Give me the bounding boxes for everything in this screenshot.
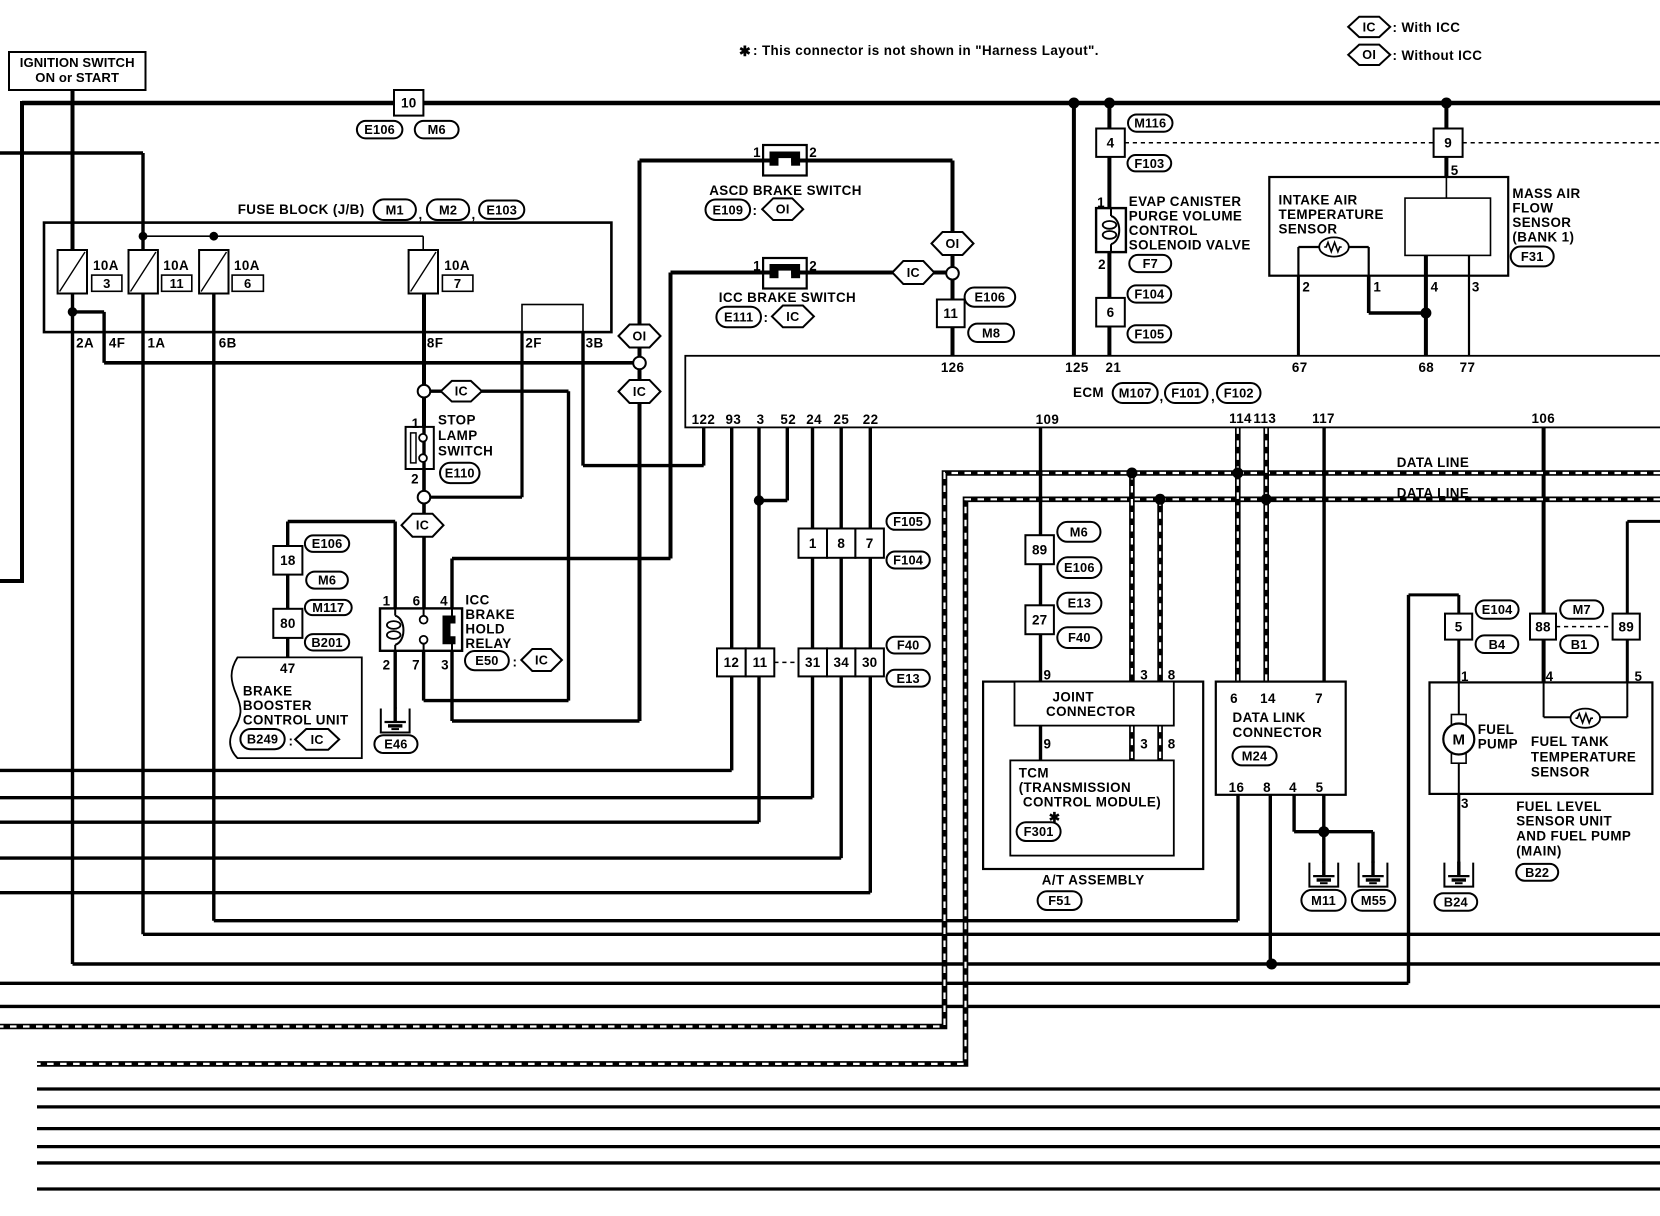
svg-text:1: 1 [1373, 280, 1381, 295]
junction dot bus/ECM125 [1068, 98, 1079, 109]
svg-text:114: 114 [1229, 411, 1252, 426]
svg-text:M55: M55 [1361, 893, 1387, 908]
svg-text:4: 4 [1546, 669, 1554, 684]
svg-text:LAMP: LAMP [438, 428, 478, 443]
svg-text:80: 80 [280, 616, 295, 631]
connector trio 31/34/30 [799, 648, 828, 676]
connector label F51 [1038, 891, 1082, 910]
svg-text:8: 8 [837, 536, 845, 551]
svg-text:F104: F104 [1134, 287, 1165, 302]
svg-text:SENSOR: SENSOR [1531, 765, 1590, 780]
connector label F104 [1128, 285, 1172, 302]
hexagon IC on stop-lamp bypass line [441, 381, 482, 402]
svg-text::: : [289, 734, 294, 749]
wire MAF pin 3 to ECM pin 77 [1468, 255, 1470, 355]
connector label M8 [968, 324, 1014, 342]
svg-text:IC: IC [416, 519, 429, 533]
connector label F301 [1017, 822, 1061, 841]
wire ECM pin 3 to left edge with branch from pin 52 [757, 427, 760, 822]
connector label M6 [306, 572, 348, 589]
connector label B201 [305, 634, 349, 650]
svg-text:BRAKE: BRAKE [243, 684, 293, 699]
svg-text:27: 27 [1032, 612, 1047, 627]
wire MAF pin 4 to ECM pin 68 [1424, 255, 1428, 355]
wire bypass: stop-lamp pin1 circle right through IC hex to riser x=568.5 [428, 390, 569, 393]
wire 4F to junction circle near 3B (y=362.8) [104, 361, 634, 365]
wire left bus drop: x=22 down to y=581 and out left edge [20, 101, 24, 581]
wire 4F terminal drop [102, 312, 105, 363]
svg-text:11: 11 [170, 276, 184, 291]
connector label E13 [887, 670, 930, 687]
svg-text::: : [513, 655, 518, 670]
connector 10 (E106/M6) on bus [394, 90, 423, 116]
wire ignition feed: IGNITION SWITCH down to fuse 3 [71, 90, 75, 251]
svg-text:F51: F51 [1048, 893, 1071, 908]
svg-text:89: 89 [1618, 619, 1633, 634]
svg-text:E106: E106 [364, 122, 395, 137]
connector label E106 [965, 288, 1016, 307]
svg-text:7: 7 [412, 658, 420, 673]
svg-text:68: 68 [1418, 360, 1434, 375]
svg-text:(BANK 1): (BANK 1) [1512, 230, 1574, 245]
svg-text:E106: E106 [975, 290, 1006, 305]
wire fuel sensor pin 4 internal lead [1543, 682, 1545, 717]
svg-text:77: 77 [1460, 360, 1476, 375]
hexagon OI on 4F column [619, 325, 661, 348]
svg-text:F31: F31 [1521, 249, 1544, 264]
svg-text:A/T ASSEMBLY: A/T ASSEMBLY [1042, 873, 1145, 888]
svg-text:M11: M11 [1311, 893, 1336, 908]
svg-text:M6: M6 [428, 122, 446, 137]
connector label B22 [1516, 864, 1558, 881]
ECM box [685, 356, 1660, 428]
wire hex column x=639.5 from ASCD pin1 through OI/IC hexes down to relay pin 3 run [638, 161, 642, 722]
connector label F105 [887, 513, 930, 530]
wire ICC switch pin 1 horizontal [671, 271, 765, 275]
svg-text:113: 113 [1253, 411, 1276, 426]
svg-text:F301: F301 [1024, 824, 1054, 839]
wire DATA LINK CONNECTOR pin 8 to y=964 bus [1269, 795, 1272, 964]
svg-text:STOP: STOP [438, 413, 476, 428]
wire connector chain 18/80 down to BRAKE BOOSTER CONTROL UNIT pin 47 [286, 522, 289, 658]
fuse block 2F/3B notch [522, 305, 583, 333]
svg-text:3: 3 [757, 412, 765, 427]
junction dot DATA LINE 1 / JOINT pin 3 [1126, 468, 1137, 479]
wire IAT sensor left lead to pin 2 / ECM pin 67 [1298, 246, 1320, 248]
svg-text:B24: B24 [1444, 895, 1469, 910]
svg-text:3: 3 [1461, 796, 1469, 811]
wire column x=952.5 through OI hex and circle to connector 11 and ECM pin 126 [951, 161, 955, 356]
connector label E106 [305, 535, 349, 552]
svg-text:52: 52 [780, 412, 796, 427]
svg-text:30: 30 [862, 655, 877, 670]
wire DATA LINK CONNECTOR pin 5 to ground M11 [1322, 795, 1325, 863]
svg-text:M8: M8 [982, 325, 1000, 340]
svg-text:47: 47 [280, 661, 296, 676]
connector label M11 [1301, 890, 1345, 911]
junction dot fuse block bus at 1A [139, 232, 148, 241]
svg-text:2: 2 [411, 472, 419, 487]
svg-text:IC: IC [535, 653, 548, 667]
svg-text:5: 5 [1451, 163, 1459, 178]
svg-text:AND FUEL PUMP: AND FUEL PUMP [1516, 829, 1631, 844]
wire fuse-block internal bus y=236 feeding fuses 6 and 7 [143, 235, 423, 237]
svg-text:1A: 1A [148, 336, 166, 351]
connector label F102 [1217, 383, 1261, 403]
wire relay coil pin 1 riser and link to connector 18/80 chain [394, 522, 397, 609]
svg-text:,: , [1160, 389, 1164, 404]
svg-text:E104: E104 [1482, 602, 1513, 617]
node circle ASCD pin2 / ICC pin2 join [946, 267, 959, 280]
connector label M116 [1128, 115, 1173, 132]
wire connector 5 to fuel pump pin 1 [1457, 640, 1460, 683]
connector 80 (M117/B201) [273, 609, 302, 638]
svg-text:7: 7 [454, 276, 461, 291]
svg-text:9: 9 [1044, 668, 1052, 683]
svg-text:10A: 10A [234, 258, 260, 273]
mass air flow sensor outer box (with IAT sensor) [1269, 177, 1508, 276]
svg-text:F105: F105 [893, 514, 923, 529]
junction dot bus/EVAP [1104, 98, 1115, 109]
connector 5 (E104/B4) on fuel pump feed [1445, 614, 1472, 640]
wire ASCD switch pin 2 to x=952.5 column [807, 159, 953, 163]
stop lamp switch E110 [406, 427, 434, 469]
svg-text:M1: M1 [386, 202, 404, 217]
svg-text::: : [753, 203, 758, 218]
svg-text:PUMP: PUMP [1478, 737, 1518, 752]
svg-text:ECM: ECM [1073, 385, 1104, 400]
connector label F7 [1129, 255, 1171, 272]
wire riser to DATA LINK CONNECTOR pin 16 [1236, 795, 1239, 921]
connector label B4 [1476, 635, 1519, 653]
A/T assembly outer box [983, 682, 1203, 869]
connector pair 12/11 on ECM 93 and 3 wires [717, 648, 746, 676]
wire 3B terminal drop to y=465.6 (ECM pin 122 link) [581, 332, 584, 466]
wire ICC switch pin 1 riser x=670.5 [669, 273, 673, 559]
fuse 10A #3 [58, 250, 87, 294]
svg-text:8: 8 [1168, 737, 1176, 752]
legend hexagon OI = Without ICC [1348, 45, 1390, 65]
wire DATA LINE 1 (striped): ECM area right edge, down x=944.5, left to edge at y=1026.5 [0, 473, 1660, 1027]
connector label E50 [465, 651, 509, 670]
connector 27 (E13/F40) [1025, 605, 1054, 634]
dashed link connector 88 to 89 [1556, 626, 1613, 628]
connector label E13 [1057, 593, 1101, 614]
svg-text:HOLD: HOLD [465, 622, 505, 637]
connector 9 on MAF feed [1434, 129, 1463, 157]
data link connector M24 box [1216, 682, 1346, 795]
svg-text:RELAY: RELAY [465, 636, 511, 651]
svg-text:ON or START: ON or START [35, 70, 119, 85]
fuse 10A #7 [409, 250, 438, 294]
connector label M7 [1560, 600, 1603, 618]
svg-text:4F: 4F [109, 336, 125, 351]
wire MAF chain from main bus through connector 9 [1444, 103, 1448, 177]
connector label F104 [887, 552, 930, 569]
svg-text:CONTROL: CONTROL [1129, 223, 1198, 238]
svg-text:ICC: ICC [465, 593, 489, 608]
connector label F101 [1165, 383, 1208, 403]
wire fuse 3 output with branch to 4F [71, 294, 74, 312]
connector label F103 [1128, 155, 1172, 171]
wire fuel pump feed: bus y=983.3 up riser x=1408.5 to connector 5 [0, 982, 1409, 985]
connector label M107 [1113, 383, 1158, 403]
fuse 10A #6 [199, 250, 228, 294]
wire ECM pin 125 from main bus [1072, 103, 1076, 356]
svg-text:F104: F104 [893, 553, 924, 568]
EVAP chain: connector 4 (M116/F103) [1096, 129, 1125, 157]
svg-text:E13: E13 [1068, 596, 1091, 611]
wire ECM pin 22 to left edge [869, 427, 872, 892]
svg-text:DATA LINK: DATA LINK [1233, 710, 1306, 725]
wire relay pin 3 run y=721 [452, 719, 640, 722]
svg-text:E106: E106 [1064, 560, 1095, 575]
svg-text:5: 5 [1635, 669, 1643, 684]
hexagon IC on 4F column [619, 380, 661, 403]
svg-text:BOOSTER: BOOSTER [243, 698, 312, 713]
wire ECM pin 109 to JOINT CONNECTOR pin 9 via connectors 89/27 [1039, 427, 1042, 682]
svg-text:: This connector is not shown: : This connector is not shown in "Harnes… [753, 43, 1099, 58]
wire JOINT CONNECTOR pin 3 (striped) to DATA LINE 1 [1129, 473, 1135, 682]
wire EVAP chain from main bus to ECM pin 21 [1107, 103, 1111, 356]
ICC brake switch E111 [763, 258, 807, 289]
connector label B1 [1560, 635, 1598, 653]
ground B24 [1444, 863, 1473, 887]
connector 11 (E106/M8) [937, 300, 965, 328]
wire continuation lines bottom of sheet [37, 1087, 1660, 1090]
svg-text:9: 9 [1444, 135, 1452, 150]
svg-text:F7: F7 [1143, 256, 1158, 271]
svg-text:3: 3 [1140, 737, 1148, 752]
svg-text:126: 126 [941, 360, 965, 375]
svg-text:M116: M116 [1134, 116, 1166, 131]
svg-text:SOLENOID VALVE: SOLENOID VALVE [1129, 238, 1251, 253]
svg-text:6: 6 [413, 594, 421, 609]
wire fuel sensor pin 5 internal lead [1600, 716, 1628, 718]
wire 8F terminal: fuse 7 output down to stop lamp switch [422, 294, 426, 431]
ignition switch block [9, 52, 146, 90]
svg-text:1: 1 [412, 416, 420, 431]
wire ECM pin 25 to left edge [840, 427, 843, 858]
dashed link 11 to 31 [774, 661, 798, 663]
svg-text:18: 18 [280, 553, 296, 568]
wire MAF pin 5 internal lead [1445, 177, 1447, 198]
brake booster control unit B249 [230, 657, 362, 758]
hexagon OI for ASCD switch [762, 198, 803, 220]
connector label B249 [240, 729, 284, 749]
svg-text:CONTROL UNIT: CONTROL UNIT [243, 713, 349, 728]
svg-text:F102: F102 [1224, 386, 1254, 401]
svg-text:TEMPERATURE: TEMPERATURE [1279, 207, 1384, 222]
hexagon IC for relay [521, 649, 562, 671]
junction dot bus/MAF [1441, 98, 1452, 109]
svg-text:5: 5 [1316, 780, 1324, 795]
svg-text:2: 2 [1098, 257, 1106, 272]
svg-text:10A: 10A [93, 258, 119, 273]
svg-text:B22: B22 [1525, 865, 1549, 880]
svg-text:IC: IC [1363, 20, 1376, 34]
svg-text:ICC BRAKE SWITCH: ICC BRAKE SWITCH [719, 290, 856, 305]
svg-text:6: 6 [1230, 691, 1238, 706]
svg-text:11: 11 [753, 655, 768, 670]
fuse 10A #11 [129, 250, 158, 294]
svg-text:F40: F40 [1068, 630, 1091, 645]
wire fuel pump pin 3 to ground B24 [1457, 794, 1460, 863]
wire 1A terminal: fuse 11 output down to y=934 bus [141, 294, 144, 935]
wire ECM pin 106 to connector 88 and fuel tank temperature sensor pin 4 [1542, 427, 1546, 613]
svg-text:9: 9 [1044, 737, 1052, 752]
svg-text:34: 34 [833, 655, 849, 670]
svg-text:M2: M2 [439, 202, 457, 217]
wire stop lamp switch pin 2 node down to ICC hex and relay pin 6 [422, 466, 426, 611]
svg-text:1: 1 [753, 259, 761, 274]
svg-text:8F: 8F [427, 336, 443, 351]
wire relay pin 7 run y=700.6 [424, 699, 569, 702]
svg-text:8: 8 [1168, 668, 1176, 683]
svg-text:SENSOR UNIT: SENSOR UNIT [1516, 814, 1612, 829]
wire relay pin 4 to ICC switch pin 1 riser, y=558.5 [452, 557, 671, 560]
svg-text:14: 14 [1260, 691, 1276, 706]
svg-text:TCM: TCM [1019, 766, 1049, 781]
svg-text:PURGE VOLUME: PURGE VOLUME [1129, 209, 1242, 224]
wire ICC switch pin 2 through IC hex to circle [807, 271, 949, 275]
svg-text:TEMPERATURE: TEMPERATURE [1531, 750, 1636, 765]
wire ECM pin 52 joining pin 3 [786, 427, 789, 500]
connector label E46 [374, 735, 417, 753]
connector 89 (fuel sensor side) [1613, 614, 1640, 640]
hexagon IC below stop lamp switch [402, 514, 444, 537]
connector label B24 [1435, 893, 1478, 911]
connector 6 (F104/F105) [1096, 298, 1125, 327]
svg-text:B201: B201 [311, 635, 342, 650]
connector label M1 [374, 199, 416, 220]
hexagon IC for ICC switch [772, 306, 814, 328]
wire y=920.7 from 6B to DATA LINK pin 16 riser [214, 919, 1238, 922]
svg-text:SWITCH: SWITCH [438, 444, 493, 459]
svg-text:FUEL TANK: FUEL TANK [1531, 734, 1609, 749]
svg-text:DATA LINE: DATA LINE [1397, 455, 1470, 470]
connector label E103 [479, 201, 524, 219]
legend hexagon IC = With ICC [1348, 17, 1390, 37]
connector 89 on ECM 109 wire (M6/E106) [1025, 535, 1054, 564]
junction dot DATA LINE 2 / ECM 113 [1261, 494, 1272, 505]
svg-text:INTAKE AIR: INTAKE AIR [1279, 193, 1358, 208]
svg-text:SENSOR: SENSOR [1512, 215, 1571, 230]
ASCD brake switch E109 [763, 145, 807, 176]
connector label E110 [440, 463, 480, 483]
svg-text:(MAIN): (MAIN) [1516, 844, 1562, 859]
svg-text:OI: OI [946, 237, 960, 251]
connector label M117 [305, 600, 352, 615]
svg-text:4: 4 [1289, 780, 1297, 795]
svg-text:M107: M107 [1119, 386, 1152, 401]
svg-text:24: 24 [806, 412, 822, 427]
svg-text:E109: E109 [712, 202, 743, 217]
wire IAT pin 1 below box joining MAF pin 4 wire [1367, 276, 1371, 313]
wire bus y=1006.4 full width [0, 1005, 1660, 1008]
svg-text:DATA LINE: DATA LINE [1397, 486, 1470, 501]
svg-text:6: 6 [1107, 305, 1115, 320]
svg-text:✱: ✱ [739, 43, 751, 59]
connector label F40 [1057, 627, 1101, 648]
svg-text:2A: 2A [76, 336, 94, 351]
svg-text:F101: F101 [1171, 386, 1201, 401]
svg-text:BRAKE: BRAKE [465, 607, 515, 622]
svg-text:,: , [419, 207, 423, 222]
svg-text:: With ICC: : With ICC [1393, 20, 1461, 35]
svg-text::: : [764, 310, 769, 325]
svg-text:E46: E46 [384, 737, 407, 752]
svg-text:1: 1 [753, 145, 761, 160]
wire DATA LINK CONNECTOR pin 4 ground branch [1292, 795, 1295, 832]
junction dot MAF pin4 / IAT pin1 [1420, 308, 1431, 319]
svg-text:88: 88 [1535, 619, 1551, 634]
junction dot DLC pins 4-5 ground tie [1318, 826, 1329, 837]
svg-text:67: 67 [1292, 360, 1308, 375]
svg-text:M6: M6 [318, 573, 336, 588]
svg-text:117: 117 [1312, 411, 1335, 426]
svg-text:IC: IC [455, 385, 468, 399]
connector 18 (E106/M6) [273, 546, 302, 575]
svg-text:16: 16 [1229, 780, 1245, 795]
wire ECM pin 114 (striped) to DATA LINK pin 6 [1235, 427, 1241, 681]
connector label E111 [716, 307, 761, 328]
svg-text:11: 11 [943, 306, 958, 321]
svg-text:ASCD BRAKE SWITCH: ASCD BRAKE SWITCH [709, 183, 862, 198]
connector label E104 [1476, 600, 1519, 618]
svg-text:JOINT: JOINT [1053, 690, 1095, 705]
svg-text:89: 89 [1032, 542, 1047, 557]
svg-text:8: 8 [1263, 780, 1271, 795]
svg-text:106: 106 [1532, 411, 1556, 426]
wire ECM pin 24 to left edge [811, 427, 814, 797]
junction dot DATA LINE 2 / JOINT pin 8 [1155, 494, 1166, 505]
wire JOINT CONNECTOR pin 8 (striped) to DATA LINE 2 [1157, 499, 1163, 681]
ground M11 [1309, 863, 1338, 887]
svg-text:125: 125 [1065, 360, 1089, 375]
junction dot fuse 3 output split 2A/4F [68, 307, 78, 317]
wire DATA LINE 2 (striped): right edge, down x=965.5, left to x=37 at y=1063.9 [37, 499, 1660, 1064]
wire main bus from x=22 to right edge at y=103 [22, 101, 1660, 106]
svg-text:B4: B4 [1489, 637, 1506, 652]
wire relay pin 3 drop [450, 651, 453, 721]
svg-text:3: 3 [1472, 280, 1480, 295]
TCM (transmission control module) box [1010, 760, 1174, 855]
svg-text:F103: F103 [1134, 156, 1164, 171]
svg-text:10A: 10A [444, 258, 470, 273]
IAT thermistor symbol [1319, 237, 1349, 256]
svg-text:B1: B1 [1571, 637, 1588, 652]
svg-text:E111: E111 [724, 310, 753, 325]
connector label M24 [1233, 747, 1277, 766]
wire relay pin 7 drop [422, 651, 425, 701]
ground E46 [381, 709, 410, 733]
svg-text:SENSOR: SENSOR [1279, 222, 1338, 237]
svg-text:IC: IC [311, 733, 324, 747]
svg-text:M117: M117 [312, 600, 344, 615]
svg-text:OI: OI [633, 329, 647, 343]
svg-text:FUSE BLOCK (J/B): FUSE BLOCK (J/B) [238, 202, 365, 217]
node circle stop lamp pin 1 / bypass [418, 385, 431, 398]
connector label E106 [1057, 557, 1101, 578]
svg-text:F40: F40 [897, 638, 920, 653]
svg-text:E103: E103 [486, 202, 517, 217]
svg-text:122: 122 [692, 412, 716, 427]
svg-text:E106: E106 [312, 536, 343, 551]
svg-text:3: 3 [103, 276, 110, 291]
svg-text:MASS AIR: MASS AIR [1512, 186, 1580, 201]
wire ECM pin 122 drop [702, 427, 705, 465]
